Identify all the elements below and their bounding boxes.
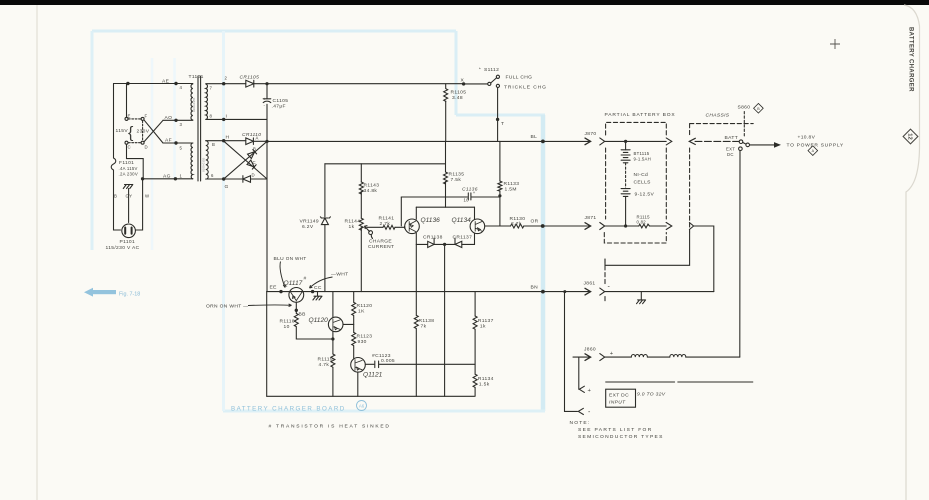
svg-text:0.005: 0.005 xyxy=(381,358,395,364)
transistor Q1117 xyxy=(289,288,304,303)
ground at J861 xyxy=(637,292,646,304)
svg-text:9100-0355: 9100-0355 xyxy=(192,97,196,112)
wire diode D to node xyxy=(251,178,268,180)
wire collector top bus xyxy=(416,206,474,208)
transistor Q1136 internals xyxy=(409,221,415,231)
resistor R1118 xyxy=(294,313,298,326)
resistor R1141 xyxy=(383,225,395,229)
svg-text:115V: 115V xyxy=(116,128,129,134)
switch S860 pivot xyxy=(746,143,750,147)
svg-text:1.5M: 1.5M xyxy=(505,187,517,193)
transistor Q1134 internals xyxy=(475,222,482,232)
svg-text:7k: 7k xyxy=(421,324,427,330)
resistor R1143 xyxy=(359,182,363,194)
switch contact E xyxy=(125,117,128,120)
switch contact D xyxy=(141,141,144,144)
svg-text:J870: J870 xyxy=(585,131,597,137)
wire R1133 vertical xyxy=(499,141,501,226)
dashed link E-F xyxy=(128,118,140,120)
resistor R1135 xyxy=(444,172,448,184)
svg-text:G: G xyxy=(225,184,229,190)
switch S1112 contact full xyxy=(496,75,499,78)
svg-text:Fig. 7-18: Fig. 7-18 xyxy=(119,291,140,297)
connector J871 box exit chevron xyxy=(666,223,672,230)
diamond output ref xyxy=(808,146,818,156)
wire R1141 to Q1136 base xyxy=(395,226,405,228)
EXT DC INPUT box xyxy=(606,389,636,407)
svg-text:D: D xyxy=(252,173,255,178)
wire C down to AG corner xyxy=(127,145,144,177)
svg-text:AF: AF xyxy=(165,138,172,144)
wire bridge center column xyxy=(444,244,446,396)
svg-text:OR: OR xyxy=(531,219,539,225)
svg-text:J860: J860 xyxy=(584,347,596,353)
wire left AC vertical (B conductor) xyxy=(113,84,115,159)
svg-text:9.0 TO 32V: 9.0 TO 32V xyxy=(637,392,666,398)
svg-text:BATT: BATT xyxy=(725,135,739,141)
svg-text:E: E xyxy=(128,114,131,119)
transistor Q1120 xyxy=(328,317,343,332)
wire J861 row xyxy=(605,291,714,293)
board bottom rail xyxy=(267,395,475,397)
cyan faint inner lines xyxy=(152,58,175,250)
wire R1135 to box top xyxy=(445,182,447,208)
battery BT1115 plates xyxy=(621,150,630,163)
wire OR row from Q1134 emitter xyxy=(485,225,511,227)
svg-text:NI-Cd: NI-Cd xyxy=(634,172,649,178)
wire R1143 vertical top xyxy=(360,164,362,182)
capacitor C1105 xyxy=(263,99,271,103)
svg-text:930: 930 xyxy=(358,339,367,345)
wire R1120 vertical xyxy=(353,292,355,303)
svg-text:0.82: 0.82 xyxy=(637,220,647,225)
blue board A6 bubble xyxy=(357,401,367,411)
svg-text:R1144: R1144 xyxy=(345,219,361,225)
svg-text:VR1149: VR1149 xyxy=(300,219,319,225)
svg-text:BN: BN xyxy=(531,285,539,291)
svg-text:CR1138: CR1138 xyxy=(423,235,443,241)
board left edge xyxy=(266,292,268,397)
svg-text:A: A xyxy=(256,136,259,141)
svg-text:4: 4 xyxy=(180,85,183,90)
wire fuse to plug xyxy=(114,170,121,230)
wire G row xyxy=(206,178,243,180)
diode CR1110A xyxy=(246,138,254,145)
wire R1137 to row xyxy=(474,330,476,375)
svg-text:115/230 V AC: 115/230 V AC xyxy=(106,245,140,251)
wire J860 tap to ext plus xyxy=(578,357,580,389)
connector J871 arrow xyxy=(585,223,591,230)
wire output to power supply xyxy=(750,144,775,146)
wire CR1137 to Q1134 leg xyxy=(462,233,475,244)
resistor R1123 xyxy=(352,332,356,345)
svg-text:1K: 1K xyxy=(358,309,365,315)
svg-text:Q1136: Q1136 xyxy=(421,217,441,224)
wire R1134 to bottom corner xyxy=(474,388,476,397)
cyan highlight inner left edge xyxy=(222,31,225,411)
svg-text:R1120: R1120 xyxy=(357,303,373,309)
capacitor C1136 xyxy=(468,193,471,200)
svg-text:1.5k: 1.5k xyxy=(479,382,490,388)
transformer primary winding 2 xyxy=(191,143,193,179)
svg-text:SEE PARTS LIST FOR: SEE PARTS LIST FOR xyxy=(578,427,653,433)
dashed link C-D xyxy=(128,142,140,144)
connector J860 jack chevron xyxy=(600,354,605,361)
wire trickle to T node to BL xyxy=(497,88,499,142)
wire J871 row in box xyxy=(605,225,667,227)
svg-text:GY: GY xyxy=(126,194,133,199)
svg-text:D: D xyxy=(145,145,148,150)
wire AG row xyxy=(143,178,193,180)
wire J871 outer link down to BN xyxy=(694,226,714,292)
resistor R1134 xyxy=(473,374,477,387)
wire CR1138 to center xyxy=(434,243,445,245)
svg-text:BATTERY CHARGER BOARD: BATTERY CHARGER BOARD xyxy=(231,406,346,413)
wire X crossover D to AO xyxy=(144,120,163,141)
switch S1112 blade pivot xyxy=(488,82,491,85)
switch contact C xyxy=(125,141,128,144)
cyan highlight bottom edge xyxy=(223,410,545,413)
wire BN row xyxy=(267,291,590,293)
wire Q1121 collector row xyxy=(365,363,475,365)
svg-text:NOTE:: NOTE: xyxy=(570,420,591,426)
svg-text:CR1105: CR1105 xyxy=(240,75,260,81)
wire W conductor down xyxy=(136,179,143,230)
top scan black bar xyxy=(0,0,929,5)
wire Q1136 collector lead xyxy=(415,207,417,219)
cyan highlight right edge xyxy=(541,115,546,411)
svg-text:+10.8V: +10.8V xyxy=(798,135,816,141)
wire H row xyxy=(206,140,246,142)
cyan highlight left edge xyxy=(91,31,94,250)
wire EXT contact down xyxy=(739,150,741,357)
svg-text:6.2V: 6.2V xyxy=(302,224,314,230)
svg-text:R1137: R1137 xyxy=(478,318,494,324)
plug prongs xyxy=(125,228,131,234)
wire R1138 column xyxy=(415,244,417,315)
charge current leader xyxy=(371,235,372,239)
connector ext plus chevron xyxy=(579,386,584,392)
blue fig 7-18 arrow xyxy=(84,288,140,298)
inductor L2 xyxy=(670,355,686,358)
svg-text:Q1134: Q1134 xyxy=(452,217,472,224)
resistor R1138 xyxy=(414,315,418,328)
output arrowhead xyxy=(774,142,781,148)
wire CR1105 to S1112 xyxy=(254,83,464,85)
svg-text:R1123: R1123 xyxy=(357,334,373,340)
resistor R1137 xyxy=(473,316,477,329)
svg-text:{: { xyxy=(128,125,134,142)
fuse F1101 xyxy=(111,158,116,170)
wire battery bottom lead xyxy=(625,196,627,226)
svg-text:CHASSIS: CHASSIS xyxy=(706,113,730,119)
svg-text:+: + xyxy=(473,190,476,195)
inductor L1 xyxy=(631,354,647,357)
wire BN tap to ext minus xyxy=(565,292,578,412)
svg-text:7.5k: 7.5k xyxy=(451,177,462,183)
wire Q1134 collector lead xyxy=(474,207,476,219)
wire BL rail xyxy=(267,140,590,142)
svg-text:9-12.5V: 9-12.5V xyxy=(635,192,655,198)
ground at CC xyxy=(313,292,322,300)
svg-text:I: I xyxy=(226,114,228,120)
svg-text:10: 10 xyxy=(284,324,290,330)
svg-text:Q1120: Q1120 xyxy=(309,317,329,324)
svg-text:C1105: C1105 xyxy=(273,98,289,104)
svg-text:AE: AE xyxy=(162,79,170,85)
wire R1138 to bottom xyxy=(415,329,417,396)
transistor Q1117 internals xyxy=(290,292,302,301)
svg-text:F: F xyxy=(145,114,148,119)
svg-text:Q1121: Q1121 xyxy=(363,372,383,379)
wire R1118 to link row xyxy=(296,327,333,339)
leader orn-on-wht xyxy=(248,304,292,307)
wire 163.8 link xyxy=(325,163,446,165)
diode CR1110B on diagonal xyxy=(248,150,257,159)
svg-text:34.8k: 34.8k xyxy=(364,188,378,194)
bridge diagonal H-to-minus xyxy=(225,142,267,179)
switch S1112 blade arm xyxy=(491,78,497,83)
svg-text:BB: BB xyxy=(299,312,306,318)
connector J861 arrow xyxy=(585,288,591,295)
wire C1136 row xyxy=(401,196,500,198)
transformer secondary winding 2 xyxy=(206,141,208,179)
wire I row xyxy=(206,118,267,120)
svg-text:1: 1 xyxy=(180,174,183,179)
svg-text:AO: AO xyxy=(165,115,173,121)
dashed S860 actuator link xyxy=(743,112,745,137)
svg-text:R1141: R1141 xyxy=(379,216,395,222)
svg-text:# TRANSISTOR IS HEAT SINKED: # TRANSISTOR IS HEAT SINKED xyxy=(269,424,391,430)
wire R1123 to Q1121 base xyxy=(353,346,355,358)
svg-text:BT1115: BT1115 xyxy=(634,151,650,156)
svg-text:A6: A6 xyxy=(359,404,365,409)
svg-text:J861: J861 xyxy=(584,281,596,287)
svg-text:12: 12 xyxy=(907,133,913,139)
wire R1120 to collector node xyxy=(353,316,355,333)
dashed battery middle xyxy=(625,163,627,189)
svg-text:P1101: P1101 xyxy=(120,239,136,245)
left page edge line xyxy=(36,5,38,500)
svg-text:INPUT: INPUT xyxy=(609,400,626,406)
svg-text:—WHT: —WHT xyxy=(331,272,348,278)
transistor Q1134 xyxy=(470,219,485,234)
svg-text:.2A 230V: .2A 230V xyxy=(119,172,138,177)
svg-text:CHARGE: CHARGE xyxy=(369,239,392,245)
svg-text:CC: CC xyxy=(314,285,322,291)
svg-text:R1118: R1118 xyxy=(280,319,295,325)
svg-text:R1119: R1119 xyxy=(318,357,333,363)
wire Q1121 emitter xyxy=(357,372,359,396)
svg-text:TRICKLE CHG: TRICKLE CHG xyxy=(504,85,547,91)
svg-text:#: # xyxy=(304,276,307,282)
bridge diagonal G-to-plus xyxy=(225,142,267,179)
registration + mark xyxy=(830,39,840,49)
wire Q1120 emitter xyxy=(332,332,334,339)
svg-text:8: 8 xyxy=(210,114,213,119)
wire GY conductor xyxy=(128,189,130,223)
svg-text:B: B xyxy=(114,194,117,199)
wire plus vertical with C1105 xyxy=(266,84,268,142)
svg-text:7: 7 xyxy=(210,86,213,91)
svg-text:SEMICONDUCTOR TYPES: SEMICONDUCTOR TYPES xyxy=(578,434,664,440)
right page tab outline xyxy=(904,5,920,500)
svg-text:2.7k: 2.7k xyxy=(380,221,391,227)
connector J870 jack chevron xyxy=(600,138,605,145)
svg-text:T: T xyxy=(501,121,504,127)
battery lower plates xyxy=(621,189,630,197)
transformer primary winding 1 xyxy=(191,84,193,120)
svg-text:T1101: T1101 xyxy=(189,74,204,80)
diode CR1110D xyxy=(243,176,251,183)
ground primary xyxy=(123,185,133,189)
svg-text:1k: 1k xyxy=(480,324,486,330)
svg-text:R1143: R1143 xyxy=(364,183,380,189)
svg-text:CURRENT: CURRENT xyxy=(368,244,394,250)
wire emitter to R1119 to rail xyxy=(332,339,334,354)
svg-text:R1105: R1105 xyxy=(451,90,467,96)
resistor R1133 xyxy=(498,181,502,191)
tab diamond 12 xyxy=(903,129,918,144)
svg-text:TO POWER SUPPLY: TO POWER SUPPLY xyxy=(787,143,844,149)
leader curves xyxy=(248,262,333,307)
wire battery top lead xyxy=(625,141,627,149)
wire tap to R1141 xyxy=(367,226,383,228)
resistor R1144 xyxy=(359,218,363,230)
connector ext minus chevron xyxy=(578,408,583,414)
switch arm xyxy=(743,142,746,144)
wire OR row to J871 xyxy=(524,225,590,227)
svg-text:C: C xyxy=(128,145,131,150)
svg-text:*: * xyxy=(479,67,481,72)
svg-text:W: W xyxy=(145,194,150,199)
svg-text:CELLS: CELLS xyxy=(634,180,652,186)
svg-text:+: + xyxy=(263,97,266,102)
svg-text:R1134: R1134 xyxy=(478,376,494,382)
wire zener vertical upper xyxy=(324,164,326,217)
resistor R1130 xyxy=(511,224,524,228)
wire secondary pin2 row xyxy=(206,83,246,85)
diode CR1138 xyxy=(416,238,434,247)
wire minus vertical to EE row xyxy=(266,141,268,291)
svg-text:+: + xyxy=(610,351,614,357)
diode CR1137 xyxy=(445,238,462,247)
transistor Q1136 xyxy=(405,219,420,234)
dashed link F-D xyxy=(142,121,144,141)
wire R1105 to BL xyxy=(445,101,447,141)
wire R1144 to EE row xyxy=(360,227,362,291)
svg-text:3: 3 xyxy=(180,122,183,127)
svg-text:230V: 230V xyxy=(137,129,150,135)
transformer core xyxy=(198,76,201,181)
svg-text:CR1137: CR1137 xyxy=(453,235,473,241)
svg-text:EXT: EXT xyxy=(726,147,735,152)
connector J871 chassis chevron xyxy=(689,223,693,230)
transistor Q1121 xyxy=(351,358,366,373)
wire Q1120 base from BN xyxy=(332,292,334,318)
wire X crossover F to AF xyxy=(144,120,163,143)
diode CR1110C on diagonal xyxy=(247,160,256,169)
svg-text:EE: EE xyxy=(270,285,278,291)
svg-text:ORN ON WHT —: ORN ON WHT — xyxy=(206,304,248,310)
svg-text:9-1.5AH: 9-1.5AH xyxy=(634,157,652,162)
chassis dashed stub at J861 xyxy=(604,259,606,302)
wire zener to EE row xyxy=(324,225,326,292)
svg-text:R1133: R1133 xyxy=(504,181,520,187)
diode CR1105 xyxy=(246,80,254,87)
switch S1112 contact trickle xyxy=(496,84,499,87)
wire C1136 branch vertical xyxy=(400,197,402,226)
svg-text:B: B xyxy=(212,142,215,147)
svg-text:9100-0355: 9100-0355 xyxy=(202,157,206,172)
svg-text:Q1117: Q1117 xyxy=(284,280,303,287)
wire J870 row in box xyxy=(605,140,667,142)
resistor R1119 xyxy=(331,354,335,367)
cyan highlight step edge xyxy=(456,31,545,115)
capacitor C1123 xyxy=(375,361,379,368)
wire R1137 column xyxy=(474,292,476,316)
switch S860 contact EXT xyxy=(739,147,743,151)
wire AF row xyxy=(163,142,193,144)
connector J860 arrow xyxy=(573,356,590,358)
transistor Q1120 internals xyxy=(333,319,340,330)
pot tap terminal circle xyxy=(369,231,373,235)
connector J870 arrow xyxy=(585,138,591,145)
switch S1112 wire to blade xyxy=(464,83,488,85)
diamond S860 ref xyxy=(754,103,764,113)
svg-text:S860: S860 xyxy=(738,105,751,111)
resistor R1105 xyxy=(444,84,448,102)
svg-text:5: 5 xyxy=(180,146,183,151)
pot tap arrow R1144 xyxy=(365,226,370,232)
svg-text:10: 10 xyxy=(464,198,470,203)
svg-text:R1135: R1135 xyxy=(449,172,465,178)
chassis dashed boundary xyxy=(690,124,754,232)
resistor R1115 xyxy=(639,224,650,228)
svg-text:3.48: 3.48 xyxy=(452,95,463,101)
svg-text:R1138: R1138 xyxy=(419,318,435,324)
leader wht xyxy=(310,277,333,288)
svg-text:2: 2 xyxy=(225,76,228,81)
svg-text:S1112: S1112 xyxy=(484,67,499,73)
wire J860 row xyxy=(605,356,740,358)
wire R1119 to bottom rail xyxy=(332,368,334,397)
switch S860 contact BATT xyxy=(739,140,743,144)
svg-text:J871: J871 xyxy=(585,215,597,221)
svg-text:DC: DC xyxy=(727,152,734,157)
transistor Q1121 internals xyxy=(355,360,362,371)
wire R1143 to R1144 xyxy=(360,192,362,219)
connector BATT arrowhead xyxy=(689,138,695,144)
svg-text:.47μF: .47μF xyxy=(272,104,286,110)
wire BATT lead xyxy=(695,140,739,142)
svg-text:BL: BL xyxy=(531,134,538,140)
connector J861 jack chevron xyxy=(600,288,605,295)
svg-text:PARTIAL BATTERY BOX: PARTIAL BATTERY BOX xyxy=(605,112,676,118)
transformer secondary winding 1 xyxy=(206,84,208,119)
connector J870 box exit chevron xyxy=(665,222,667,224)
svg-text:H: H xyxy=(226,135,230,141)
wire BL to R1135 vertical xyxy=(445,141,447,172)
wire Q1136 emitter lead xyxy=(415,233,417,244)
wire E branch vertical xyxy=(126,84,128,118)
wire AE row xyxy=(114,83,193,85)
svg-text:6: 6 xyxy=(211,173,214,178)
chassis boundary lower xyxy=(605,232,690,265)
leader blu-on-wht xyxy=(280,262,286,288)
svg-text:.4A 115V: .4A 115V xyxy=(119,166,138,171)
cyan highlight top edge xyxy=(92,30,456,33)
